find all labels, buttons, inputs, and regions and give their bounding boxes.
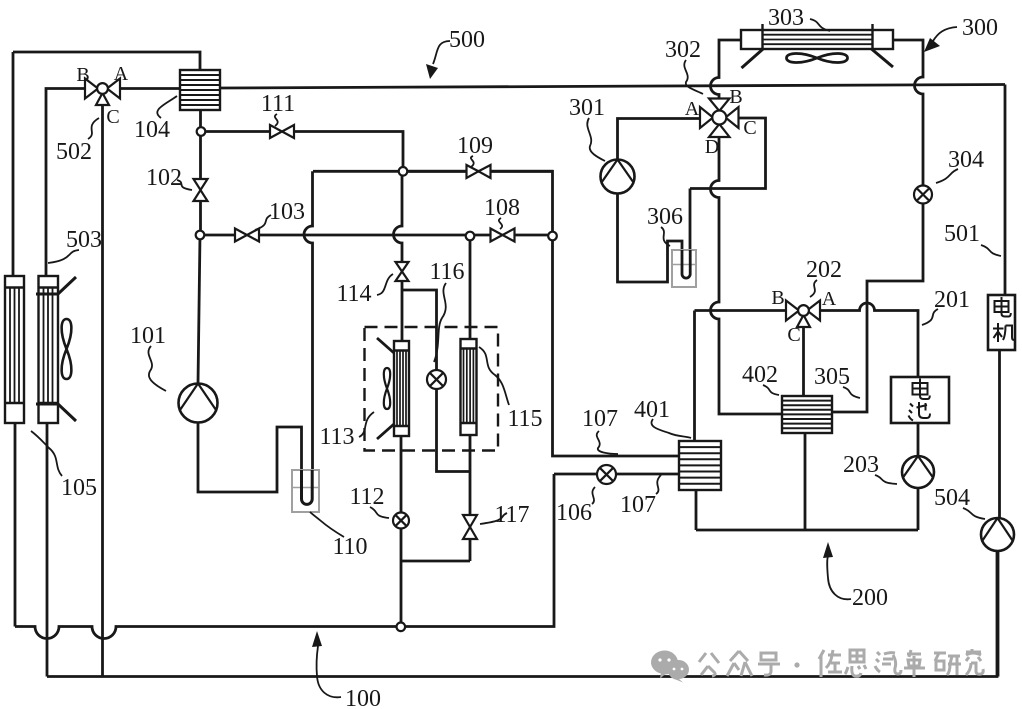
svg-text:D: D xyxy=(705,136,719,158)
watermark char 号 xyxy=(758,653,780,675)
chinese glyph for motor 机 xyxy=(993,323,1015,342)
leader 503 xyxy=(48,250,79,263)
valve 108 xyxy=(491,229,515,242)
svg-text:109: 109 xyxy=(457,133,493,159)
leader 114 xyxy=(377,274,393,295)
wire battery to pump 203 xyxy=(917,423,920,456)
wire valve112/117 junction crossbar xyxy=(401,560,470,563)
node at y235 left xyxy=(196,231,205,240)
pump 203 xyxy=(902,456,934,488)
watermark dot xyxy=(794,662,799,667)
svg-text:201: 201 xyxy=(934,287,970,313)
wire horizontal y235 xyxy=(200,234,553,237)
wire horizontal y171 xyxy=(313,170,553,173)
leader 103 xyxy=(255,215,271,230)
svg-text:303: 303 xyxy=(768,5,804,31)
wire HX115 bottom through valve117 xyxy=(469,435,472,561)
svg-text:B: B xyxy=(76,64,89,86)
leader 303 xyxy=(810,19,830,31)
wire HX401 top riser xyxy=(693,311,696,442)
watermark char 究 xyxy=(966,649,983,675)
wire 501 riser to motor xyxy=(1004,85,1007,296)
dashed enclosure around 113/115/116 xyxy=(365,327,499,451)
valve 111 xyxy=(270,125,294,138)
leader 106 xyxy=(592,487,595,504)
svg-text:502: 502 xyxy=(56,139,92,165)
solenoid valve 106 xyxy=(597,465,616,484)
wire pump 203 down xyxy=(917,488,920,530)
svg-text:102: 102 xyxy=(146,165,182,191)
watermark char 研 xyxy=(934,653,961,675)
node at y627 xyxy=(397,623,406,632)
wire valve 109 line down to node x552 xyxy=(403,171,553,236)
wire valve302 C-port to tank 306 xyxy=(690,118,766,250)
valve 114 xyxy=(396,262,409,281)
svg-text:301: 301 xyxy=(569,95,605,121)
leader 203 xyxy=(875,475,897,484)
leader 116 xyxy=(434,283,446,362)
wire x552 down to HX401 upper-left port xyxy=(553,236,680,456)
svg-text:A: A xyxy=(114,63,129,85)
evaporator 115 xyxy=(461,339,477,435)
svg-text:C: C xyxy=(787,324,800,346)
evaporator 113 with fan xyxy=(377,338,409,439)
svg-text:501: 501 xyxy=(944,221,980,247)
valve 109 xyxy=(467,165,491,178)
svg-text:503: 503 xyxy=(66,227,102,253)
leader 502 xyxy=(88,118,99,139)
wire radiator 503 bottom down xyxy=(46,423,49,677)
four-way valve 302 xyxy=(700,99,739,138)
svg-text:500: 500 xyxy=(449,27,485,53)
svg-text:116: 116 xyxy=(429,259,464,285)
svg-text:B: B xyxy=(771,287,784,309)
wire valve 111 branch xyxy=(201,132,403,172)
svg-text:104: 104 xyxy=(134,117,170,143)
leader 107 lower xyxy=(656,475,661,494)
leader 102 xyxy=(177,180,192,190)
svg-text:A: A xyxy=(822,288,837,310)
leader 110 xyxy=(310,512,344,537)
wire motor to pump 504 xyxy=(998,350,1001,519)
heat exchanger 303 with fan xyxy=(741,24,893,68)
arrow 300 xyxy=(924,27,957,52)
svg-text:110: 110 xyxy=(332,534,367,560)
svg-text:103: 103 xyxy=(269,199,305,225)
svg-text:302: 302 xyxy=(665,37,701,63)
svg-text:111: 111 xyxy=(261,91,295,117)
watermark char 佐 xyxy=(819,650,842,677)
node at 115 riser xyxy=(466,232,475,241)
watermark char 汽 xyxy=(875,652,901,674)
svg-text:306: 306 xyxy=(647,204,683,230)
pump 101 xyxy=(179,384,218,423)
wire radiator 105 bottom down xyxy=(14,423,17,627)
chinese glyph for battery 电 xyxy=(913,379,930,400)
leader 401 xyxy=(651,419,691,438)
leader 117 xyxy=(480,513,507,524)
leader 501 xyxy=(981,245,1001,256)
wire x313 down to tank 110 with hop xyxy=(304,171,313,470)
wire pump 504 bottom xyxy=(997,550,1000,677)
watermark char 众 xyxy=(727,651,752,676)
chinese glyph for battery 池 xyxy=(909,402,931,421)
svg-text:114: 114 xyxy=(336,281,371,307)
node on y171 line xyxy=(399,167,408,176)
svg-text:101: 101 xyxy=(130,323,166,349)
leader 201 xyxy=(922,309,938,325)
arrow 500 xyxy=(426,41,450,79)
svg-text:C: C xyxy=(106,106,119,128)
accumulator tank 306 xyxy=(672,250,696,287)
leader 108 xyxy=(499,218,502,229)
svg-text:107: 107 xyxy=(620,492,656,518)
boxes with chinese labels xyxy=(891,295,1015,423)
wire valve302 D-port down to HX402 left with hops xyxy=(711,137,783,414)
leader 109 xyxy=(471,156,474,167)
node at x552 xyxy=(548,232,557,241)
wire tank 306 to pump 301 suction xyxy=(618,194,683,283)
heat exchanger 402 xyxy=(782,396,832,433)
wire HX402 bottom xyxy=(804,433,807,530)
wire left riser to radiator 105 xyxy=(12,52,15,276)
svg-text:C: C xyxy=(743,117,756,139)
watermark char 公 xyxy=(699,653,719,676)
wire node to pump 101 xyxy=(198,235,200,384)
wire valve116 branch xyxy=(402,290,470,472)
svg-text:107: 107 xyxy=(582,406,618,432)
three-way valve 202 xyxy=(786,301,820,328)
solenoid valve 116 xyxy=(427,370,446,389)
wire HX113 bottom to valve112 to node y627 xyxy=(400,436,403,627)
leader 107 upper xyxy=(597,431,618,454)
leader 104 xyxy=(157,96,177,118)
watermark char 思 xyxy=(845,650,866,676)
wire main top horizontal xyxy=(220,85,1005,89)
wire valve302 B-port up to HX303 left with hop xyxy=(711,40,742,99)
svg-text:105: 105 xyxy=(61,475,97,501)
pump 504 xyxy=(981,518,1014,551)
wire x401 down through valve114 to HX113 xyxy=(394,171,403,341)
motor box xyxy=(988,295,1015,350)
leader 115 xyxy=(479,347,509,405)
leader 306 xyxy=(661,227,670,246)
heat exchanger 104 xyxy=(180,70,220,110)
svg-text:108: 108 xyxy=(484,195,520,221)
svg-text:305: 305 xyxy=(814,364,850,390)
leader 101 xyxy=(148,346,166,391)
heat exchanger 401 xyxy=(679,441,721,490)
wire top-left horizontal to HX104 top xyxy=(13,52,200,70)
node at 104 bottom xyxy=(197,127,206,136)
radiator 105 xyxy=(5,276,24,423)
battery box xyxy=(891,377,949,423)
leader 113 xyxy=(359,412,374,437)
leader 402 xyxy=(763,385,779,395)
radiator 503 with fan xyxy=(36,276,76,423)
valve 102 xyxy=(194,179,208,201)
solenoid valve 112 xyxy=(393,513,409,529)
svg-text:202: 202 xyxy=(806,257,842,283)
wire HX104 bottom to valve102 to node xyxy=(199,110,202,235)
solenoid valve 304 xyxy=(914,186,932,204)
wire horizontal y530 xyxy=(696,529,918,532)
wire pump 301 discharge to valve302 A-port xyxy=(618,119,701,160)
wire valve502 A-port to HX104 left xyxy=(120,87,180,90)
wire valve202 B-port line xyxy=(695,309,787,312)
wire HX401 bottom xyxy=(695,490,698,530)
leader 202 xyxy=(810,280,817,297)
wire HX303 right through valve304 to HX402 right xyxy=(832,40,923,412)
svg-text:100: 100 xyxy=(345,686,381,709)
svg-text:200: 200 xyxy=(852,585,888,611)
valve 117 xyxy=(463,515,477,539)
leader 302 xyxy=(684,60,703,94)
valve 103 xyxy=(235,229,259,242)
svg-text:115: 115 xyxy=(507,406,542,432)
wire bottom border xyxy=(47,551,997,677)
leader 105 xyxy=(31,431,62,476)
wire HX115 top riser xyxy=(469,236,472,339)
accumulator tank 110 xyxy=(292,470,319,512)
wire valve202 C-port to HX402 top xyxy=(802,327,805,396)
svg-text:B: B xyxy=(729,86,742,108)
svg-text:112: 112 xyxy=(349,484,384,510)
pump 301 xyxy=(601,160,635,194)
WATERMARK xyxy=(651,649,983,683)
svg-text:106: 106 xyxy=(556,500,592,526)
svg-text:113: 113 xyxy=(319,424,354,450)
wire valve106 line to HX401 lower-left port xyxy=(554,473,679,476)
wechat icon bubbles xyxy=(651,651,689,683)
wire valve502 B-port down to radiator 503 xyxy=(46,89,85,277)
svg-text:A: A xyxy=(685,98,700,120)
watermark char 车 xyxy=(904,650,925,677)
arrow 100 xyxy=(312,631,341,697)
VALVES xyxy=(85,79,1014,632)
svg-text:402: 402 xyxy=(742,362,778,388)
svg-text:504: 504 xyxy=(934,485,970,511)
leader 112 xyxy=(370,507,389,518)
wire valve202 A-port to battery with hop xyxy=(820,303,918,377)
arrow 200 xyxy=(823,542,851,599)
leader 305 xyxy=(843,387,860,398)
three-way valve 502 xyxy=(85,79,120,106)
leader 504 xyxy=(963,508,985,519)
svg-text:304: 304 xyxy=(948,147,984,173)
leader 301 xyxy=(587,118,605,161)
chinese glyph for motor 电 xyxy=(909,297,1016,421)
wire pump 101 bottom loop to tank 110 xyxy=(198,423,302,493)
svg-text:300: 300 xyxy=(962,15,998,41)
svg-text:117: 117 xyxy=(494,502,529,528)
svg-text:203: 203 xyxy=(843,452,879,478)
wire valve502 C-port down to bottom border xyxy=(101,105,104,677)
leader 111 xyxy=(275,114,278,126)
wire horizontal y626 with hops, corner up at x554 xyxy=(15,474,554,639)
leader 304 xyxy=(936,169,958,183)
